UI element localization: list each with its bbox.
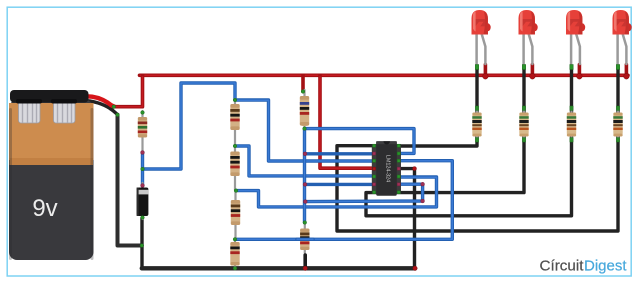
anode red stub LED3 <box>577 65 583 80</box>
node wire-end above diode <box>141 184 145 188</box>
wire: diode cathode to ground junction <box>140 218 143 268</box>
svg-text:9v: 9v <box>32 195 57 222</box>
blue wire over divider bottom resistor (ladder tap3 overlay) <box>297 238 313 241</box>
wire: V+ red power rail <box>140 74 629 78</box>
LED1 cathode tip <box>475 65 478 70</box>
ladder resistor R3 <box>231 191 240 239</box>
resistor LED col3 <box>567 106 576 142</box>
node divider pin6-right tap <box>303 200 307 204</box>
node divider pin2-left tap <box>303 152 307 156</box>
wire: rail stub to divider resistor R305 <box>301 75 305 91</box>
node T zener top <box>141 167 145 171</box>
LED D4 red <box>566 10 585 66</box>
resistor LED col4 <box>613 106 622 142</box>
node wire-end below R143 <box>141 151 145 155</box>
wire: IC right pin1 to LED1 resistor (net OUT-A) <box>400 136 477 146</box>
wire: divider node to IC left pin2 <box>305 152 377 155</box>
wire: divider column vertical <box>303 129 306 223</box>
junction node battery minus <box>116 113 120 117</box>
node pin11 corner end <box>413 167 417 171</box>
wire: IC right pin7 to LED2 resistor (net OUT-B) <box>398 136 524 193</box>
IC pin dots left <box>373 144 376 194</box>
svg-text:LM124-324: LM124-324 <box>385 155 391 182</box>
svg-text:Digest: Digest <box>584 258 627 274</box>
resistor LED col1 <box>472 106 481 142</box>
wire: IC left pin1 to LED4 resistor (net OUT-D) <box>337 136 618 231</box>
resistor LED col2 <box>519 106 528 142</box>
wire: battery negative lead (black curved) <box>82 101 118 115</box>
node divider bottom <box>303 221 307 225</box>
node hook end a <box>421 182 425 186</box>
LED D5 red <box>613 10 632 66</box>
LED2 cathode tip <box>522 65 525 70</box>
ladder resistor R2 <box>230 146 239 190</box>
node ground corner junction <box>140 244 144 248</box>
anode red stub LED1 <box>483 65 489 80</box>
LED D3 red <box>519 10 538 66</box>
junction node battery plus <box>112 105 116 109</box>
wire: IC left pin7 to LED3 resistor (net OUT-C) <box>366 136 572 216</box>
node divider pin6-left tap <box>303 183 307 187</box>
cathode leg wire LED2 over rail <box>522 69 525 112</box>
zener diode D1 <box>137 183 149 219</box>
wire: battery plus to rail riser <box>114 75 143 106</box>
ladder resistor R1 <box>230 99 239 146</box>
node ladder Jc <box>233 238 237 242</box>
LED4 cathode tip <box>616 65 619 70</box>
IC pin dots right <box>397 144 400 194</box>
anode red stub LED4 <box>624 65 630 80</box>
battery 9V <box>9 90 94 260</box>
node hook end b <box>421 199 425 203</box>
divider resistor R305 bottom <box>300 222 309 268</box>
wire: bottom ground rail <box>142 266 415 270</box>
resistor R-zener-feed at x143 <box>138 111 147 152</box>
node above R143 <box>141 111 145 115</box>
divider resistor R305 top <box>300 90 309 129</box>
ladder resistor R4 <box>230 239 239 268</box>
node ground rail end <box>413 266 417 270</box>
node divider J <box>303 127 307 131</box>
node divider stub <box>301 90 305 94</box>
cathode leg wire LED1 over rail <box>475 69 478 112</box>
op-amp U1 LM124-324 DIP14 <box>372 141 401 196</box>
wire: divider node to IC left pin6 <box>305 183 375 186</box>
svg-text:Círcuit: Círcuit <box>540 258 584 274</box>
cathode leg wire LED4 over rail <box>616 69 619 112</box>
wire: IC pin11 (right4) to ground rail vertical <box>400 169 415 269</box>
node ladder Ja <box>233 144 237 148</box>
wire: battery positive lead (red curved) <box>83 96 114 106</box>
wire: rail to IC pin4 V+ (red) <box>320 75 377 168</box>
anode red stub LED2 <box>530 65 536 80</box>
node ladder Jb <box>234 189 238 193</box>
cathode leg wire LED3 over rail <box>570 69 573 112</box>
LED3 cathode tip <box>570 65 573 70</box>
node divider lead at rail (red end) <box>303 266 307 270</box>
wire: ladder tap1 to IC left pin5 <box>235 146 377 176</box>
wire: divider node to IC right pin2 <box>305 129 415 154</box>
node ladder top J0 <box>233 98 237 102</box>
wire: ground run from battery down and to bottom rail corner <box>118 115 142 246</box>
node ladder bottom at rail <box>233 267 237 271</box>
node below diode <box>141 216 145 220</box>
wire: ladder tap0 to IC left pin3 <box>235 100 377 161</box>
LED D2 red <box>472 10 491 66</box>
wire: IC right pin6 hook to divider column <box>305 184 422 201</box>
wire: ladder tap3 to IC right pin3 loop <box>235 161 452 240</box>
wire: ladder tap2 to IC right pin5 loop <box>236 177 437 207</box>
wire: blue net zener node to comparator ladder top <box>143 83 236 186</box>
